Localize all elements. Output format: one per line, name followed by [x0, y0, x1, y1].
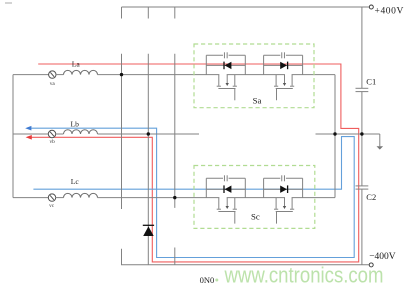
- svg-text:C1: C1: [366, 77, 376, 87]
- svg-text:0N0: 0N0: [200, 275, 215, 285]
- svg-text:La: La: [72, 59, 81, 68]
- svg-text:www.cntronics.com: www.cntronics.com: [224, 263, 384, 288]
- svg-text:Lc: Lc: [71, 177, 80, 186]
- svg-text:Sc: Sc: [251, 211, 260, 221]
- svg-text:−400V: −400V: [369, 252, 396, 262]
- svg-text:vc: vc: [49, 203, 55, 209]
- svg-text:vb: vb: [49, 139, 55, 145]
- svg-text:Sa: Sa: [253, 95, 262, 105]
- svg-text:C2: C2: [366, 192, 376, 202]
- svg-text:Lb: Lb: [70, 120, 79, 129]
- svg-text:+400V: +400V: [375, 6, 404, 16]
- svg-text:va: va: [50, 81, 56, 87]
